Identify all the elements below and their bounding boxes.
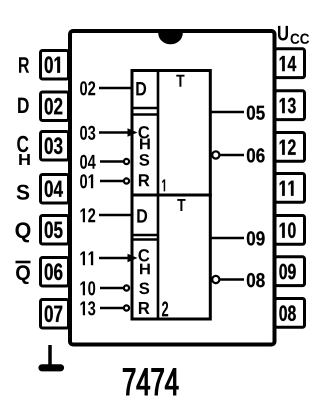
pin number label 13 xyxy=(80,301,95,315)
inverter bubble U1b R xyxy=(124,305,129,310)
pin box 05 xyxy=(41,216,69,245)
pin box 13 xyxy=(275,91,305,120)
supply label UCC xyxy=(278,26,309,44)
flip-flop U1b control divider xyxy=(157,195,160,319)
pin label H xyxy=(19,154,30,165)
flip-flop U1a label S xyxy=(139,154,149,166)
ground symbol xyxy=(42,364,61,371)
pin box 01 xyxy=(41,51,69,80)
flip-flop U1a label T xyxy=(176,75,184,87)
pin number label 12 xyxy=(80,208,95,222)
wire pin10 to U1b S input xyxy=(100,287,123,289)
pin number label 01 xyxy=(80,174,93,188)
flip-flop U1b label R xyxy=(139,302,150,314)
pin box 14 xyxy=(275,49,305,78)
flip-flop U1b section number 2 xyxy=(162,301,168,316)
pin label Q-bar xyxy=(16,262,31,284)
flip-flop U1b D-cell bottom line xyxy=(132,234,158,237)
flip-flop U1a control divider xyxy=(157,71,160,196)
pin label S xyxy=(17,185,30,200)
clock arrowhead U1b xyxy=(128,254,138,263)
ground lead wire xyxy=(48,345,52,365)
flip-flop U1a D-cell bottom line xyxy=(132,107,158,110)
IC package body U1 7474 xyxy=(70,31,275,345)
wire pin11 to U1b C input xyxy=(99,257,129,259)
pin number label 05 xyxy=(247,106,265,120)
wire U1b Q-bar output to pin08 xyxy=(220,278,244,280)
flip-flop U1b label S xyxy=(139,283,149,295)
flip-flop U1b label C xyxy=(139,249,150,261)
flip-flop U1a label H xyxy=(140,139,150,150)
flip-flop U1a section number 1 xyxy=(162,179,165,191)
wire U1b Q output to pin09 xyxy=(211,237,245,239)
pin box 03 xyxy=(41,132,69,161)
pin box 10 xyxy=(275,216,305,245)
flip-flop U1b label H xyxy=(140,264,150,275)
pin-1 index notch xyxy=(158,33,183,44)
pin number label 03 xyxy=(80,126,95,140)
pin label R xyxy=(19,57,29,72)
flip-flop U1b label D xyxy=(137,209,147,222)
pin number label 08 xyxy=(247,273,265,287)
pin number label 06 xyxy=(247,148,265,162)
pin box 09 xyxy=(275,257,305,286)
flip-flop U1a body xyxy=(132,71,210,196)
wire pin03 to U1a C input xyxy=(99,131,129,133)
pin label D xyxy=(18,98,29,113)
pin box 06 xyxy=(41,258,69,287)
flip-flop U1b label T xyxy=(177,199,185,211)
pin box 12 xyxy=(275,133,305,162)
pin label C xyxy=(17,136,28,153)
wire pin01 to U1a R input xyxy=(100,180,123,182)
flip-flop U1b body xyxy=(132,195,210,319)
inverter bubble U1a R xyxy=(124,178,129,183)
part number 7474 xyxy=(123,369,178,395)
pin label Q xyxy=(16,222,31,242)
inverter bubble U1b Q-bar xyxy=(212,276,219,283)
pin number label 04 xyxy=(80,155,96,169)
wire pin02 to U1a D input xyxy=(99,87,131,89)
pin box 07 xyxy=(41,300,69,329)
wire pin04 to U1a S input xyxy=(100,160,123,162)
pin box 08 xyxy=(275,299,305,328)
wire pin13 to U1b R input xyxy=(100,307,123,309)
wire U1a Q output to pin05 xyxy=(211,111,245,113)
pin number label 09 xyxy=(247,231,265,245)
pin box 02 xyxy=(41,92,69,121)
flip-flop U1a label C xyxy=(139,126,150,138)
inverter bubble U1b S xyxy=(124,285,129,290)
inverter bubble U1a Q-bar xyxy=(212,151,219,158)
wire pin12 to U1b D input xyxy=(99,214,131,216)
flip-flop U1b CHSR-cell top line xyxy=(132,238,158,241)
clock arrowhead U1a xyxy=(128,128,138,137)
pin box 04 xyxy=(41,175,69,204)
pin box 11 xyxy=(275,174,305,203)
pin number label 11 xyxy=(80,251,93,265)
flip-flop U1a label D xyxy=(136,82,146,95)
flip-flop U1a CHSR-cell top line xyxy=(132,113,158,116)
inverter bubble U1a S xyxy=(124,159,129,164)
flip-flop U1a label R xyxy=(139,174,150,186)
wire U1a Q-bar output to pin06 xyxy=(220,154,244,156)
pin number label 10 xyxy=(80,281,95,295)
pin number label 02 xyxy=(80,81,95,95)
